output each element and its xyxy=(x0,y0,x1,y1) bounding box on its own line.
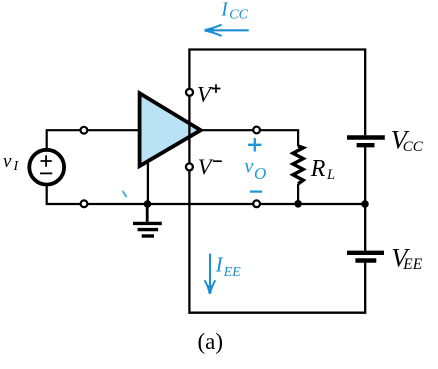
wire: input top from source to op-amp xyxy=(47,130,140,150)
svg-text:CC: CC xyxy=(403,139,424,155)
wire: top rail from left supply to VCC rail xyxy=(189,50,365,136)
svg-text:EE: EE xyxy=(402,256,422,273)
svg-text:(a): (a) xyxy=(198,329,224,354)
current IEE arrow xyxy=(205,254,216,295)
label ICC xyxy=(220,0,248,23)
op-amp U1 xyxy=(140,93,201,166)
svg-text:R: R xyxy=(310,156,326,182)
junction: ground node xyxy=(144,200,152,208)
label vI xyxy=(3,151,20,174)
wire: left supply rail below V- down to bottom rail and across to VEE bottom xyxy=(189,171,365,312)
label VCC xyxy=(391,124,424,155)
terminal: vO minus xyxy=(253,200,260,207)
svg-text:CC: CC xyxy=(229,8,248,23)
wire: VCC bottom plate to middle junction to VEE top plate xyxy=(364,147,366,250)
resistor RL xyxy=(293,146,303,184)
wire: output from op-amp to RL top xyxy=(201,130,298,146)
junction: RL bottom xyxy=(294,200,302,208)
battery VCC xyxy=(347,138,385,146)
junction: right rail middle xyxy=(361,200,369,208)
ground xyxy=(133,204,162,236)
label + (vO) xyxy=(248,138,262,152)
voltage source vI xyxy=(29,150,64,185)
label RL xyxy=(310,156,335,183)
terminal: vO plus xyxy=(253,127,260,134)
label VEE xyxy=(391,243,423,273)
wire: bottom/middle common wire xyxy=(47,185,366,205)
label V+ xyxy=(197,81,220,106)
wire: RL bottom lead xyxy=(297,184,299,204)
svg-text:v: v xyxy=(3,151,12,172)
terminal: input bottom xyxy=(81,200,88,207)
svg-text:L: L xyxy=(326,167,335,183)
label - (vO) xyxy=(250,191,262,193)
svg-text:V: V xyxy=(197,81,213,106)
terminal: input top xyxy=(81,127,88,134)
label IEE xyxy=(215,252,242,279)
svg-text:O: O xyxy=(254,164,266,183)
svg-text:EE: EE xyxy=(223,265,242,280)
svg-text:I: I xyxy=(215,252,224,276)
terminal: V- xyxy=(186,163,193,170)
label vO xyxy=(244,155,266,183)
stray cyan tick xyxy=(123,192,126,197)
wire: inverting input down to ground junction xyxy=(147,160,149,204)
svg-text:v: v xyxy=(244,155,254,177)
terminal: V+ xyxy=(186,89,193,96)
wire: supply line through op-amp V+ to V- xyxy=(188,97,190,163)
svg-text:V: V xyxy=(198,154,214,179)
current ICC arrow xyxy=(204,25,249,36)
label V- xyxy=(198,154,222,179)
battery VEE xyxy=(347,253,384,261)
